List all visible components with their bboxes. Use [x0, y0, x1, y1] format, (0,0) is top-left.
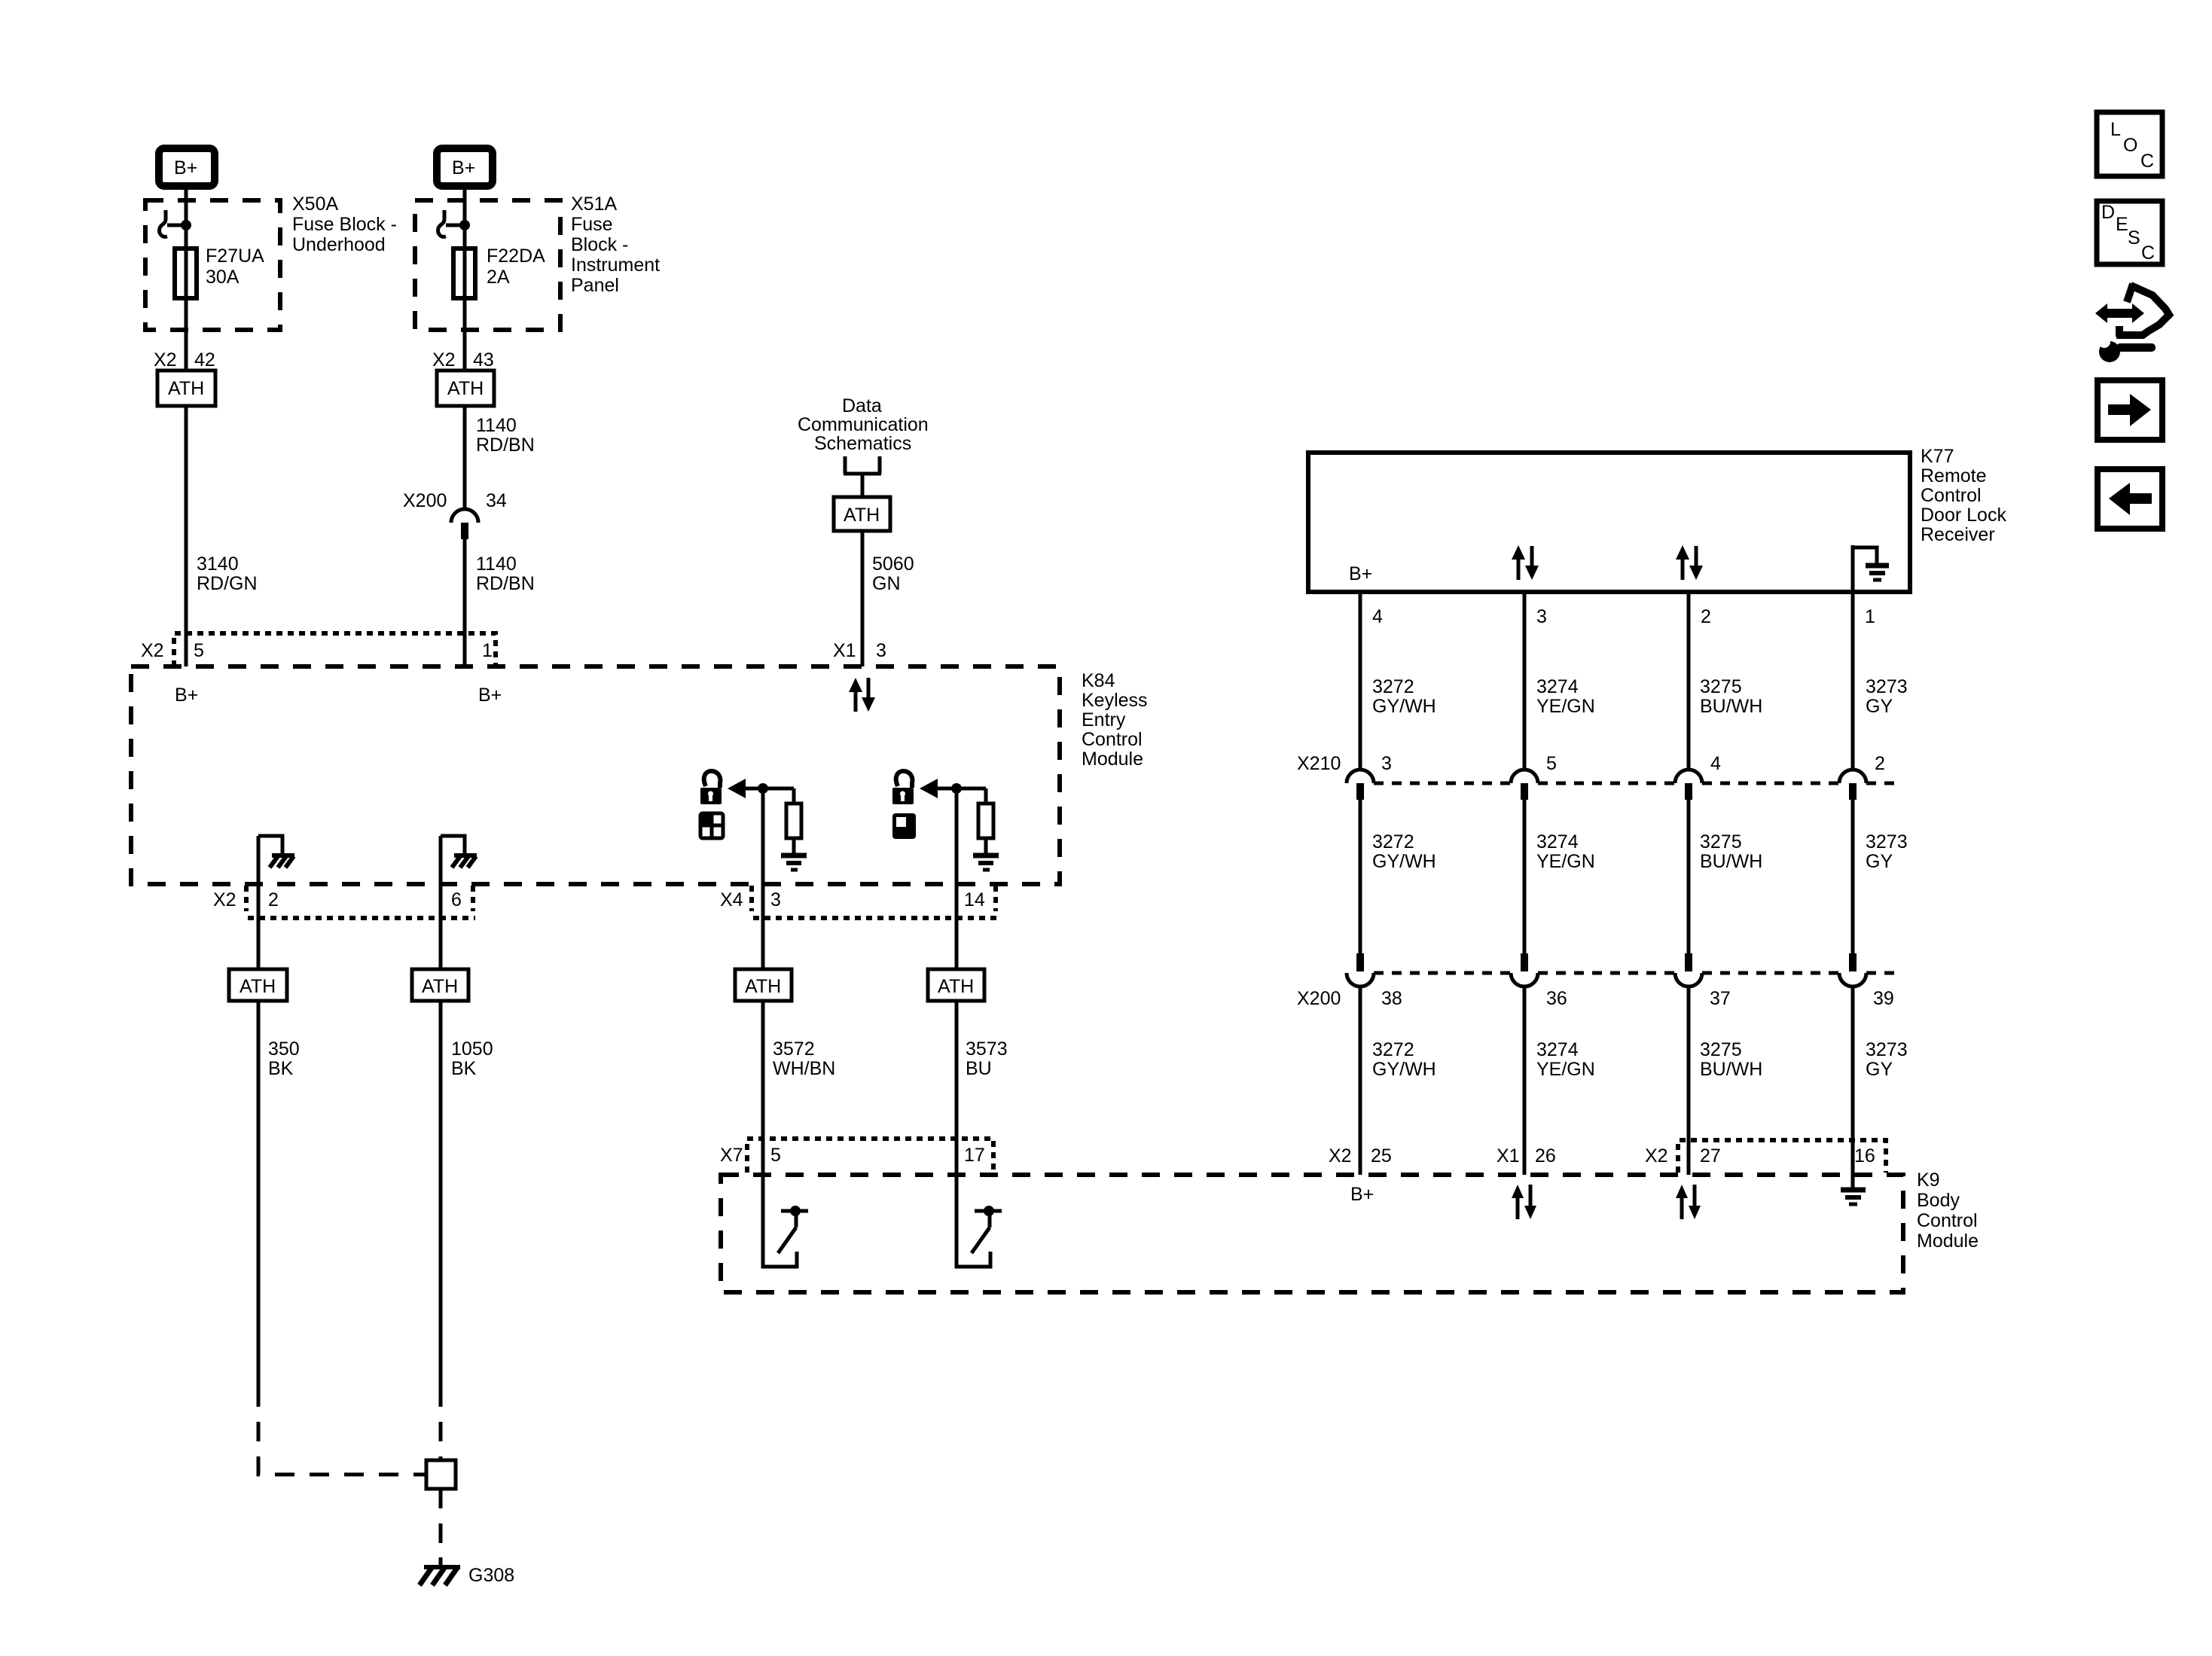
svg-text:Underhood: Underhood	[292, 234, 386, 255]
wire label 3274 YE/GN (row 3)	[1536, 1039, 1595, 1080]
wire label 3273 GY (row 3)	[1866, 1039, 1908, 1080]
svg-text:4: 4	[1710, 753, 1721, 774]
svg-text:Module: Module	[1082, 749, 1143, 770]
svg-text:L: L	[2110, 119, 2121, 140]
svg-text:X50A: X50A	[292, 194, 338, 215]
svg-text:O: O	[2123, 135, 2137, 156]
svg-text:RD/BN: RD/BN	[476, 435, 535, 456]
svg-text:3274: 3274	[1536, 1039, 1579, 1060]
svg-text:ATH: ATH	[745, 976, 781, 997]
module K9 Body Control Module dashed outline	[721, 1175, 1903, 1292]
svg-text:X2: X2	[1645, 1145, 1668, 1167]
wire 350 BK below ATH	[257, 1001, 261, 1387]
svg-text:K77: K77	[1921, 446, 1954, 467]
wire 3274 YE/GN X210 to X200-36	[1523, 798, 1527, 955]
svg-text:BU: BU	[966, 1058, 992, 1079]
svg-text:Block -: Block -	[571, 234, 628, 255]
ATH box 5 (1050 BK)	[412, 969, 468, 1001]
svg-text:3273: 3273	[1866, 676, 1908, 697]
label Data Communication Schematics	[798, 395, 929, 454]
svg-text:2: 2	[1875, 753, 1885, 774]
ground bars inside K84 (group B)	[973, 855, 999, 870]
svg-text:X1: X1	[833, 640, 856, 661]
internal ground K9 pin 16	[1841, 1190, 1866, 1204]
diagnostic wrench icon	[2095, 284, 2169, 362]
wire B+ to fuse F22DA to ATH (second column)	[463, 190, 467, 371]
connector X2 strip on top of K84	[174, 633, 496, 666]
DESC navigation box	[2097, 201, 2162, 264]
svg-text:X2: X2	[213, 889, 236, 910]
svg-text:C: C	[2140, 151, 2154, 172]
svg-text:30A: 30A	[206, 267, 240, 288]
svg-text:3: 3	[770, 889, 781, 910]
connector X2 strip above K9 (pins 27,16)	[1678, 1140, 1886, 1173]
svg-text:2: 2	[1701, 606, 1711, 627]
ATH box 6 (3572)	[735, 969, 792, 1001]
svg-text:BU/WH: BU/WH	[1700, 696, 1762, 717]
svg-text:YE/GN: YE/GN	[1536, 1059, 1595, 1080]
svg-text:37: 37	[1710, 988, 1731, 1009]
pin label X2 42	[154, 349, 215, 371]
wire label 3275 BU/WH (row 2)	[1700, 831, 1762, 872]
svg-text:36: 36	[1546, 988, 1567, 1009]
internal ground K77 pin 1	[1851, 545, 1889, 592]
svg-text:5: 5	[1546, 753, 1557, 774]
up/down arrows K77 pin 3	[1512, 545, 1539, 580]
junction dot lock group B	[951, 783, 962, 794]
label X50A Fuse Block - Underhood	[292, 194, 397, 255]
wire from K84 unlock driver to X4-14 and ATH	[955, 788, 959, 969]
wire K84 ground pin X2-2 to ATH	[257, 836, 261, 969]
svg-text:1140: 1140	[476, 415, 517, 436]
pin label X1 26 (K9)	[1497, 1145, 1556, 1167]
wire 3275 BU/WH K77 pin 2 to X210-4	[1687, 592, 1691, 769]
connector X200 dashed line	[1374, 971, 1901, 975]
svg-text:3275: 3275	[1700, 831, 1742, 852]
svg-text:3: 3	[876, 640, 886, 661]
pin label X7 5 17	[720, 1145, 985, 1166]
svg-text:GY: GY	[1866, 1059, 1893, 1080]
wire label 3275 BU/WH (row 3)	[1700, 1039, 1762, 1080]
wire 3572 WH/BN from ATH through X7-5 to K9	[761, 1001, 765, 1175]
wire 1050 BK below ATH	[439, 1001, 443, 1387]
svg-text:3275: 3275	[1700, 1039, 1742, 1060]
dashed wire 350 BK continuation to splice	[258, 1387, 426, 1475]
svg-text:42: 42	[194, 349, 215, 371]
svg-text:C: C	[2141, 242, 2155, 264]
svg-text:GY: GY	[1866, 696, 1893, 717]
svg-text:2: 2	[268, 889, 279, 910]
connector X210 pin 5 (arc+pin)	[1511, 770, 1538, 800]
module K84 Keyless Entry Control Module dashed outline	[131, 666, 1060, 884]
wire label 3273 GY (row 2)	[1866, 831, 1908, 872]
B+ power symbol 1	[159, 148, 215, 186]
svg-text:ATH: ATH	[844, 505, 880, 526]
svg-text:Communication: Communication	[798, 414, 929, 435]
label X51A Fuse Block - Instrument Panel	[571, 194, 660, 296]
svg-text:6: 6	[451, 889, 462, 910]
dashed wire splice to ground G308	[439, 1489, 443, 1557]
svg-text:Fuse Block -: Fuse Block -	[292, 214, 397, 235]
wire 3273 GY X200 to K9 pin X2-16	[1851, 987, 1855, 1175]
svg-text:Control: Control	[1921, 485, 1982, 506]
svg-text:B+: B+	[175, 685, 198, 706]
svg-text:Module: Module	[1917, 1231, 1979, 1252]
connector X210 pin 3 (arc+pin)	[1347, 770, 1374, 800]
svg-text:3272: 3272	[1372, 676, 1414, 697]
svg-text:34: 34	[486, 490, 507, 511]
wire label 1050 BK	[451, 1038, 493, 1079]
svg-text:BK: BK	[451, 1058, 477, 1079]
up/down arrows K9 pin 27	[1676, 1185, 1701, 1219]
svg-text:Receiver: Receiver	[1921, 524, 1995, 545]
svg-text:2A: 2A	[487, 267, 510, 288]
back arrow box	[2098, 469, 2162, 529]
wire 1140 RD/BN from ATH to in-line connector X200-34	[463, 406, 467, 510]
connector X210 pin 4 (arc+pin)	[1675, 770, 1702, 800]
ATH fuse tap box 1	[157, 371, 215, 406]
svg-text:GY/WH: GY/WH	[1372, 696, 1436, 717]
svg-text:Control: Control	[1082, 729, 1143, 750]
svg-text:K9: K9	[1917, 1170, 1940, 1191]
door lock switch contact (pin 5)	[763, 1175, 808, 1267]
resistor/driver element B	[978, 788, 993, 853]
svg-text:25: 25	[1371, 1145, 1392, 1167]
svg-text:B+: B+	[1349, 563, 1372, 584]
svg-text:ATH: ATH	[422, 976, 458, 997]
svg-text:Control: Control	[1917, 1210, 1978, 1231]
wire label 3274 YE/GN (row 1)	[1536, 676, 1595, 717]
junction dot lock group A	[758, 783, 768, 794]
svg-text:ATH: ATH	[938, 976, 974, 997]
dashed wire 1050 BK continuation to splice	[439, 1387, 443, 1460]
svg-text:3275: 3275	[1700, 676, 1742, 697]
wire 3275 BU/WH X210 to X200-37	[1687, 798, 1691, 955]
connector X200 pin 38 (pin+arc)	[1347, 953, 1374, 987]
wire 3275 BU/WH X200 to K9 pin X2-27	[1687, 987, 1691, 1175]
svg-text:3273: 3273	[1866, 831, 1908, 852]
svg-text:BU/WH: BU/WH	[1700, 851, 1762, 872]
wire label 3140 RD/GN	[197, 554, 258, 594]
svg-text:38: 38	[1381, 988, 1402, 1009]
svg-text:1: 1	[1865, 606, 1875, 627]
data link bracket symbol	[844, 456, 881, 474]
pin label X2 2 6 (K84 bottom)	[213, 889, 462, 910]
svg-text:3: 3	[1381, 753, 1392, 774]
svg-text:ATH: ATH	[447, 378, 484, 399]
svg-text:B+: B+	[174, 157, 197, 178]
wire label 3272 GY/WH (row 2)	[1372, 831, 1436, 872]
connector X200 pin 36 (pin+arc)	[1511, 953, 1538, 987]
svg-text:YE/GN: YE/GN	[1536, 851, 1595, 872]
svg-text:GY/WH: GY/WH	[1372, 1059, 1436, 1080]
svg-text:K84: K84	[1082, 670, 1115, 691]
svg-text:3572: 3572	[773, 1038, 815, 1060]
connector label X210 with pins 3 5 4 2	[1297, 753, 1885, 774]
wire label 3573 BU	[966, 1038, 1008, 1079]
svg-text:27: 27	[1700, 1145, 1721, 1167]
connector X2 strip under K84 (pins 2,6)	[246, 886, 475, 918]
svg-text:26: 26	[1535, 1145, 1556, 1167]
wire label 1140 RD/BN (lower)	[476, 554, 535, 594]
svg-text:BU/WH: BU/WH	[1700, 1059, 1762, 1080]
wire label 3272 GY/WH (row 3)	[1372, 1039, 1436, 1080]
circuit breaker hook in X50A	[160, 210, 185, 236]
wire label 3275 BU/WH (row 1)	[1700, 676, 1762, 717]
svg-text:5060: 5060	[872, 554, 914, 575]
fuse F27UA 30A	[175, 246, 264, 298]
svg-text:4: 4	[1372, 606, 1383, 627]
svg-text:YE/GN: YE/GN	[1536, 696, 1595, 717]
svg-text:3: 3	[1536, 606, 1547, 627]
svg-text:X2: X2	[432, 349, 456, 371]
svg-text:Schematics: Schematics	[814, 433, 911, 454]
door lock switch contact (pin 17)	[956, 1175, 1002, 1267]
wire label 3273 GY (row 1)	[1866, 676, 1908, 717]
wire 3573 BU from ATH through X7-17 to K9	[955, 1001, 959, 1175]
svg-text:X4: X4	[720, 889, 743, 910]
wire K84 ground pin X2-6 to ATH	[439, 836, 443, 969]
svg-text:1050: 1050	[451, 1038, 493, 1060]
svg-text:X2: X2	[154, 349, 177, 371]
connector X4 strip under K84 (pins 3,14)	[752, 886, 997, 918]
svg-text:X200: X200	[1297, 988, 1341, 1009]
wire 3274 YE/GN X200 to K9 pin X1-26	[1523, 987, 1527, 1175]
svg-text:ATH: ATH	[168, 378, 204, 399]
svg-text:16: 16	[1854, 1145, 1875, 1167]
wire 3272 GY/WH X200 to K9 pin X2-25	[1359, 987, 1362, 1175]
ATH box 4 (350 BK)	[229, 969, 287, 1001]
svg-text:Panel: Panel	[571, 275, 619, 296]
up/down arrows K9 pin 26	[1512, 1185, 1536, 1219]
svg-text:14: 14	[964, 889, 985, 910]
pin label X4 3 14	[720, 889, 985, 910]
window icon (lock group A)	[700, 813, 723, 838]
connector X210 dashed line	[1374, 782, 1901, 785]
svg-text:ATH: ATH	[240, 976, 276, 997]
wire K9 pin 16 internal to ground	[1851, 1175, 1855, 1190]
unlock padlock icon (lock group A)	[700, 771, 722, 804]
wire label 3274 YE/GN (row 2)	[1536, 831, 1595, 872]
svg-text:F27UA: F27UA	[206, 246, 264, 267]
wire label 3272 GY/WH (row 1)	[1372, 676, 1436, 717]
forward arrow box	[2098, 380, 2162, 440]
svg-text:3272: 3272	[1372, 1039, 1414, 1060]
label K9 Body Control Module	[1917, 1170, 1979, 1252]
svg-text:RD/GN: RD/GN	[197, 573, 258, 594]
circuit breaker hook in X51A	[438, 210, 463, 236]
unlock padlock icon (lock group B)	[892, 771, 914, 804]
svg-text:S: S	[2128, 227, 2140, 249]
fuse block X50A dashed outline	[145, 200, 280, 330]
svg-text:X2: X2	[141, 640, 164, 661]
svg-text:3273: 3273	[1866, 1039, 1908, 1060]
pin label X2 5 (K84)	[141, 640, 204, 661]
svg-text:GN: GN	[872, 573, 901, 594]
svg-text:Fuse: Fuse	[571, 214, 613, 235]
wire B+ to fuse F27UA to ATH (left column)	[185, 190, 188, 371]
internal chassis ground K84 pin X2-2	[258, 836, 294, 868]
svg-text:BK: BK	[268, 1058, 294, 1079]
ATH box 7 (3573)	[928, 969, 984, 1001]
ground bars inside K84 (group A)	[781, 855, 807, 870]
ATH box 3 (serial data)	[834, 497, 890, 531]
label K77 Remote Control Door Lock Receiver	[1921, 446, 2006, 545]
svg-text:X1: X1	[1497, 1145, 1520, 1167]
svg-text:39: 39	[1873, 988, 1894, 1009]
svg-text:G308: G308	[468, 1565, 514, 1586]
svg-text:1140: 1140	[476, 554, 517, 575]
wire label 1140 RD/BN (upper)	[476, 415, 535, 456]
wire from data-link bracket to ATH (serial data)	[861, 474, 865, 497]
svg-text:B+: B+	[478, 685, 502, 706]
fuse F22DA 2A	[453, 246, 545, 298]
wire 3140 RD/GN from ATH to K84 pin X2-5	[185, 406, 188, 666]
wire 3272 GY/WH K77 pin 4 to X210-3	[1359, 592, 1362, 769]
svg-text:Remote: Remote	[1921, 465, 1987, 486]
pin label X2 43	[432, 349, 494, 371]
wire 3273 GY X210 to X200-39	[1851, 798, 1855, 955]
left arrow to lock icon A	[728, 779, 794, 798]
up/down arrows K77 pin 2	[1676, 545, 1703, 580]
svg-text:F22DA: F22DA	[487, 246, 545, 267]
wire 3274 YE/GN K77 pin 3 to X210-5	[1523, 592, 1527, 769]
wire label 3572 WH/BN	[773, 1038, 835, 1079]
connector label X200 34	[403, 490, 507, 511]
internal chassis ground K84 pin X2-6	[441, 836, 477, 868]
pin label X1 3 (K84)	[833, 640, 886, 661]
pin label X2 25 (K9)	[1329, 1145, 1392, 1167]
svg-text:1: 1	[482, 640, 493, 661]
LOC navigation box	[2097, 112, 2162, 176]
svg-text:350: 350	[268, 1038, 300, 1060]
connector X7 strip above K9 (pins 5,17)	[747, 1139, 993, 1173]
svg-text:3140: 3140	[197, 554, 239, 575]
wire label 5060 GN	[872, 554, 914, 594]
svg-text:X51A: X51A	[571, 194, 617, 215]
svg-text:3272: 3272	[1372, 831, 1414, 852]
svg-text:GY/WH: GY/WH	[1372, 851, 1436, 872]
svg-text:X200: X200	[403, 490, 447, 511]
svg-text:3274: 3274	[1536, 831, 1579, 852]
svg-text:43: 43	[473, 349, 494, 371]
wire from K84 lock driver to X4-3 and ATH	[761, 788, 765, 969]
in-line connector X200 pin 34	[451, 509, 478, 539]
pin label X2 27 (K9)	[1645, 1145, 1721, 1167]
svg-text:3573: 3573	[966, 1038, 1008, 1060]
B+ power symbol 2	[437, 148, 493, 186]
connector label X200 with pins 38 36 37 39	[1297, 988, 1894, 1009]
svg-text:B+: B+	[452, 157, 475, 178]
svg-text:RD/BN: RD/BN	[476, 573, 535, 594]
svg-text:Entry: Entry	[1082, 709, 1126, 730]
wire 5060 GN from ATH to K84 pin X1-3	[861, 531, 865, 666]
connector X210 pin 2 (arc+pin)	[1839, 770, 1866, 800]
svg-text:3274: 3274	[1536, 676, 1579, 697]
wire 1140 RD/BN from X200-34 to K84 pin X2-1	[463, 538, 467, 666]
ATH fuse tap box 2	[437, 371, 494, 406]
connector X200 pin 39 (pin+arc)	[1839, 953, 1866, 987]
svg-text:WH/BN: WH/BN	[773, 1058, 835, 1079]
wire label 350 BK	[268, 1038, 300, 1079]
wire 3272 GY/WH X210 to X200-38	[1359, 798, 1362, 955]
connector X200 pin 37 (pin+arc)	[1675, 953, 1702, 987]
junction dot X50A	[181, 220, 191, 230]
svg-text:Body: Body	[1917, 1190, 1960, 1211]
resistor/driver element A	[786, 788, 801, 853]
svg-text:D: D	[2101, 202, 2115, 223]
svg-text:17: 17	[964, 1145, 985, 1166]
door icon (lock group B)	[892, 813, 916, 839]
svg-text:5: 5	[194, 640, 204, 661]
splice square to G308	[426, 1460, 456, 1489]
ground G308 chassis symbol	[420, 1557, 514, 1586]
svg-text:E: E	[2116, 214, 2128, 235]
svg-text:Data: Data	[842, 395, 882, 416]
svg-text:Instrument: Instrument	[571, 255, 660, 276]
fuse block X51A dashed outline	[415, 200, 560, 330]
up/down serial data arrows in K84	[849, 678, 875, 712]
label K84 Keyless Entry Control Module	[1082, 670, 1148, 770]
junction dot X51A	[459, 220, 470, 230]
svg-text:X7: X7	[720, 1145, 743, 1166]
module K77 Remote Control Door Lock Receiver box	[1308, 453, 1910, 592]
svg-text:Door Lock: Door Lock	[1921, 505, 2006, 526]
svg-text:5: 5	[770, 1145, 781, 1166]
svg-text:Keyless: Keyless	[1082, 690, 1148, 711]
svg-text:GY: GY	[1866, 851, 1893, 872]
left arrow to lock icon B	[920, 779, 986, 798]
svg-text:B+: B+	[1350, 1184, 1374, 1205]
wire 3273 GY K77 pin 1 to X210-2	[1851, 592, 1855, 769]
svg-text:X2: X2	[1329, 1145, 1352, 1167]
svg-text:X210: X210	[1297, 753, 1341, 774]
